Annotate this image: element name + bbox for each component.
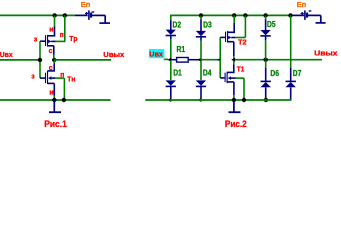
wire: R1 left lead — [172, 59, 177, 61]
wire: T1 substrate tie to ground rail — [236, 78, 245, 100]
wire: Uвх stub — [164, 58, 168, 60]
wire: T1 source to ground rail — [233, 95, 235, 100]
node: D4 to ground rail — [198, 98, 202, 102]
node: rail to D3 — [199, 13, 203, 17]
node: input junction at D2-D1 column — [167, 58, 171, 62]
wire: D1 anode from input node — [170, 61, 172, 81]
svg-text:Uвых: Uвых — [314, 51, 337, 58]
wire: R1 right lead — [188, 59, 199, 61]
wire: Tн substrate tie to ground rail — [55, 78, 64, 100]
wire: Tp source riser — [54, 15, 56, 36]
wire: D4 anode from R1 node — [200, 61, 202, 81]
svg-text:п: п — [60, 72, 64, 79]
diode D4 — [196, 80, 206, 86]
diode D7 — [286, 81, 296, 87]
diode D3 — [196, 31, 206, 37]
node: rail to T2 substrate — [243, 13, 247, 17]
node: rail to D5 — [263, 13, 267, 17]
svg-text:Т1: Т1 — [237, 66, 245, 73]
wire: D6 cathode from output node — [265, 61, 267, 82]
wire: Uвх input (left) — [0, 59, 40, 61]
svg-text:з: з — [31, 73, 35, 80]
wire: right ground rail — [145, 99, 291, 101]
svg-text:Uвх: Uвх — [0, 52, 13, 59]
svg-text:Т2: Т2 — [238, 40, 247, 47]
svg-text:D5: D5 — [267, 20, 276, 29]
svg-text:Рис.1: Рис.1 — [44, 118, 67, 129]
transistor T2 (p-channel MOSFET) — [220, 31, 235, 59]
diode D1 — [166, 80, 176, 86]
wire: T2 substrate tie to supply — [235, 15, 245, 37]
node: D6 to ground rail — [264, 98, 268, 102]
svg-text:Тр: Тр — [69, 36, 77, 43]
transistor Тн (n-channel MOSFET) — [40, 71, 55, 96]
ground (right battery) — [316, 15, 326, 23]
wire: drain link above output node — [53, 55, 55, 59]
wire: D5 cathode to output wire — [265, 36, 267, 60]
node: T1 source to rail — [232, 98, 236, 102]
node: input to gates — [38, 58, 42, 62]
wire: D3 cathode to R1 node — [200, 37, 202, 60]
wire: Tн source to ground rail — [53, 96, 55, 101]
node: T1 substrate to rail — [242, 98, 246, 102]
wire: D6 anode to ground rail — [265, 87, 267, 100]
wire: D7 cathode lead (navy) — [290, 68, 292, 81]
ground (left rail) — [49, 100, 61, 112]
node: Tн substrate to rail — [62, 98, 66, 102]
wire: output Uвых (right) — [235, 59, 322, 61]
transistor Тр (p-channel MOSFET) — [40, 35, 55, 55]
diode D5 — [260, 30, 270, 36]
wire: T2 source riser — [233, 15, 235, 33]
wire: Uвых output (left) — [54, 59, 111, 61]
svg-text:D3: D3 — [203, 20, 212, 29]
svg-text:Рис.2: Рис.2 — [225, 118, 247, 129]
wire: input wire to gate bus — [201, 59, 218, 61]
svg-text:п: п — [60, 32, 64, 39]
svg-text:Uвх: Uвх — [149, 49, 163, 58]
node: output junction (left) — [52, 58, 56, 62]
wire: D5 anode lead — [265, 15, 267, 30]
wire: gate bus (left) — [39, 41, 41, 78]
wire: Tp substrate tie to supply — [55, 15, 66, 41]
diode D2 — [166, 30, 176, 36]
svg-text:D2: D2 — [173, 20, 182, 29]
svg-text:R1: R1 — [177, 45, 186, 54]
svg-text:Uвых: Uвых — [103, 52, 124, 59]
svg-text:и: и — [49, 26, 53, 33]
node: Tн source to rail — [52, 98, 56, 102]
wire: D3 anode lead — [200, 16, 202, 19]
wire: D2 anode lead — [170, 15, 172, 30]
svg-text:D7: D7 — [293, 69, 302, 78]
diode D6 — [261, 81, 271, 87]
wire: D1 cathode to ground rail — [170, 86, 172, 98]
wire: Tн drain riser — [53, 61, 55, 71]
wire: D7 anode to ground rail — [290, 87, 292, 100]
battery GB1 Eп (left) — [85, 10, 105, 20]
svg-text:с: с — [49, 65, 53, 72]
wire: D2 cathode to input node — [170, 36, 172, 60]
label Uвх (right, highlighted) — [149, 49, 165, 58]
svg-text:D6: D6 — [270, 69, 279, 78]
node: rail to battery GB2 — [288, 13, 292, 17]
wire: T1 drain riser — [233, 61, 235, 65]
ground (left battery) — [99, 15, 110, 23]
ground (right rail) — [229, 100, 241, 112]
svg-text:Тн: Тн — [67, 76, 75, 83]
node: input to gate bus junction — [217, 58, 221, 62]
wire: right supply rail — [171, 14, 304, 16]
wire: left ground rail — [0, 99, 111, 101]
transistor T1 (n-channel MOSFET) — [220, 72, 235, 95]
node: supply to Tp source — [52, 13, 56, 17]
wire: D7 cathode from supply rail — [290, 15, 292, 68]
node: output junction (right) — [231, 58, 235, 62]
wire: left supply rail — [0, 14, 88, 16]
wire: D4 cathode to ground rail — [200, 86, 202, 98]
wire: gate bus (right) — [219, 37, 221, 78]
svg-text:D1: D1 — [173, 68, 182, 77]
node: D1 to ground rail — [167, 98, 171, 102]
svg-text:з: з — [34, 37, 38, 44]
node: rail to T2 source — [232, 13, 236, 17]
svg-text:и: и — [49, 89, 53, 96]
node: supply to Tp substrate — [63, 13, 67, 17]
svg-text:Eп: Eп — [81, 0, 91, 9]
node: output to D6 — [264, 58, 268, 62]
svg-text:D4: D4 — [203, 68, 212, 77]
resistor R1 — [177, 58, 189, 63]
svg-text:Eп: Eп — [297, 0, 307, 9]
svg-text:с: с — [49, 48, 53, 55]
node: junction at D3-D4 column — [197, 58, 201, 62]
battery GB2 Eп (right) — [301, 10, 321, 20]
